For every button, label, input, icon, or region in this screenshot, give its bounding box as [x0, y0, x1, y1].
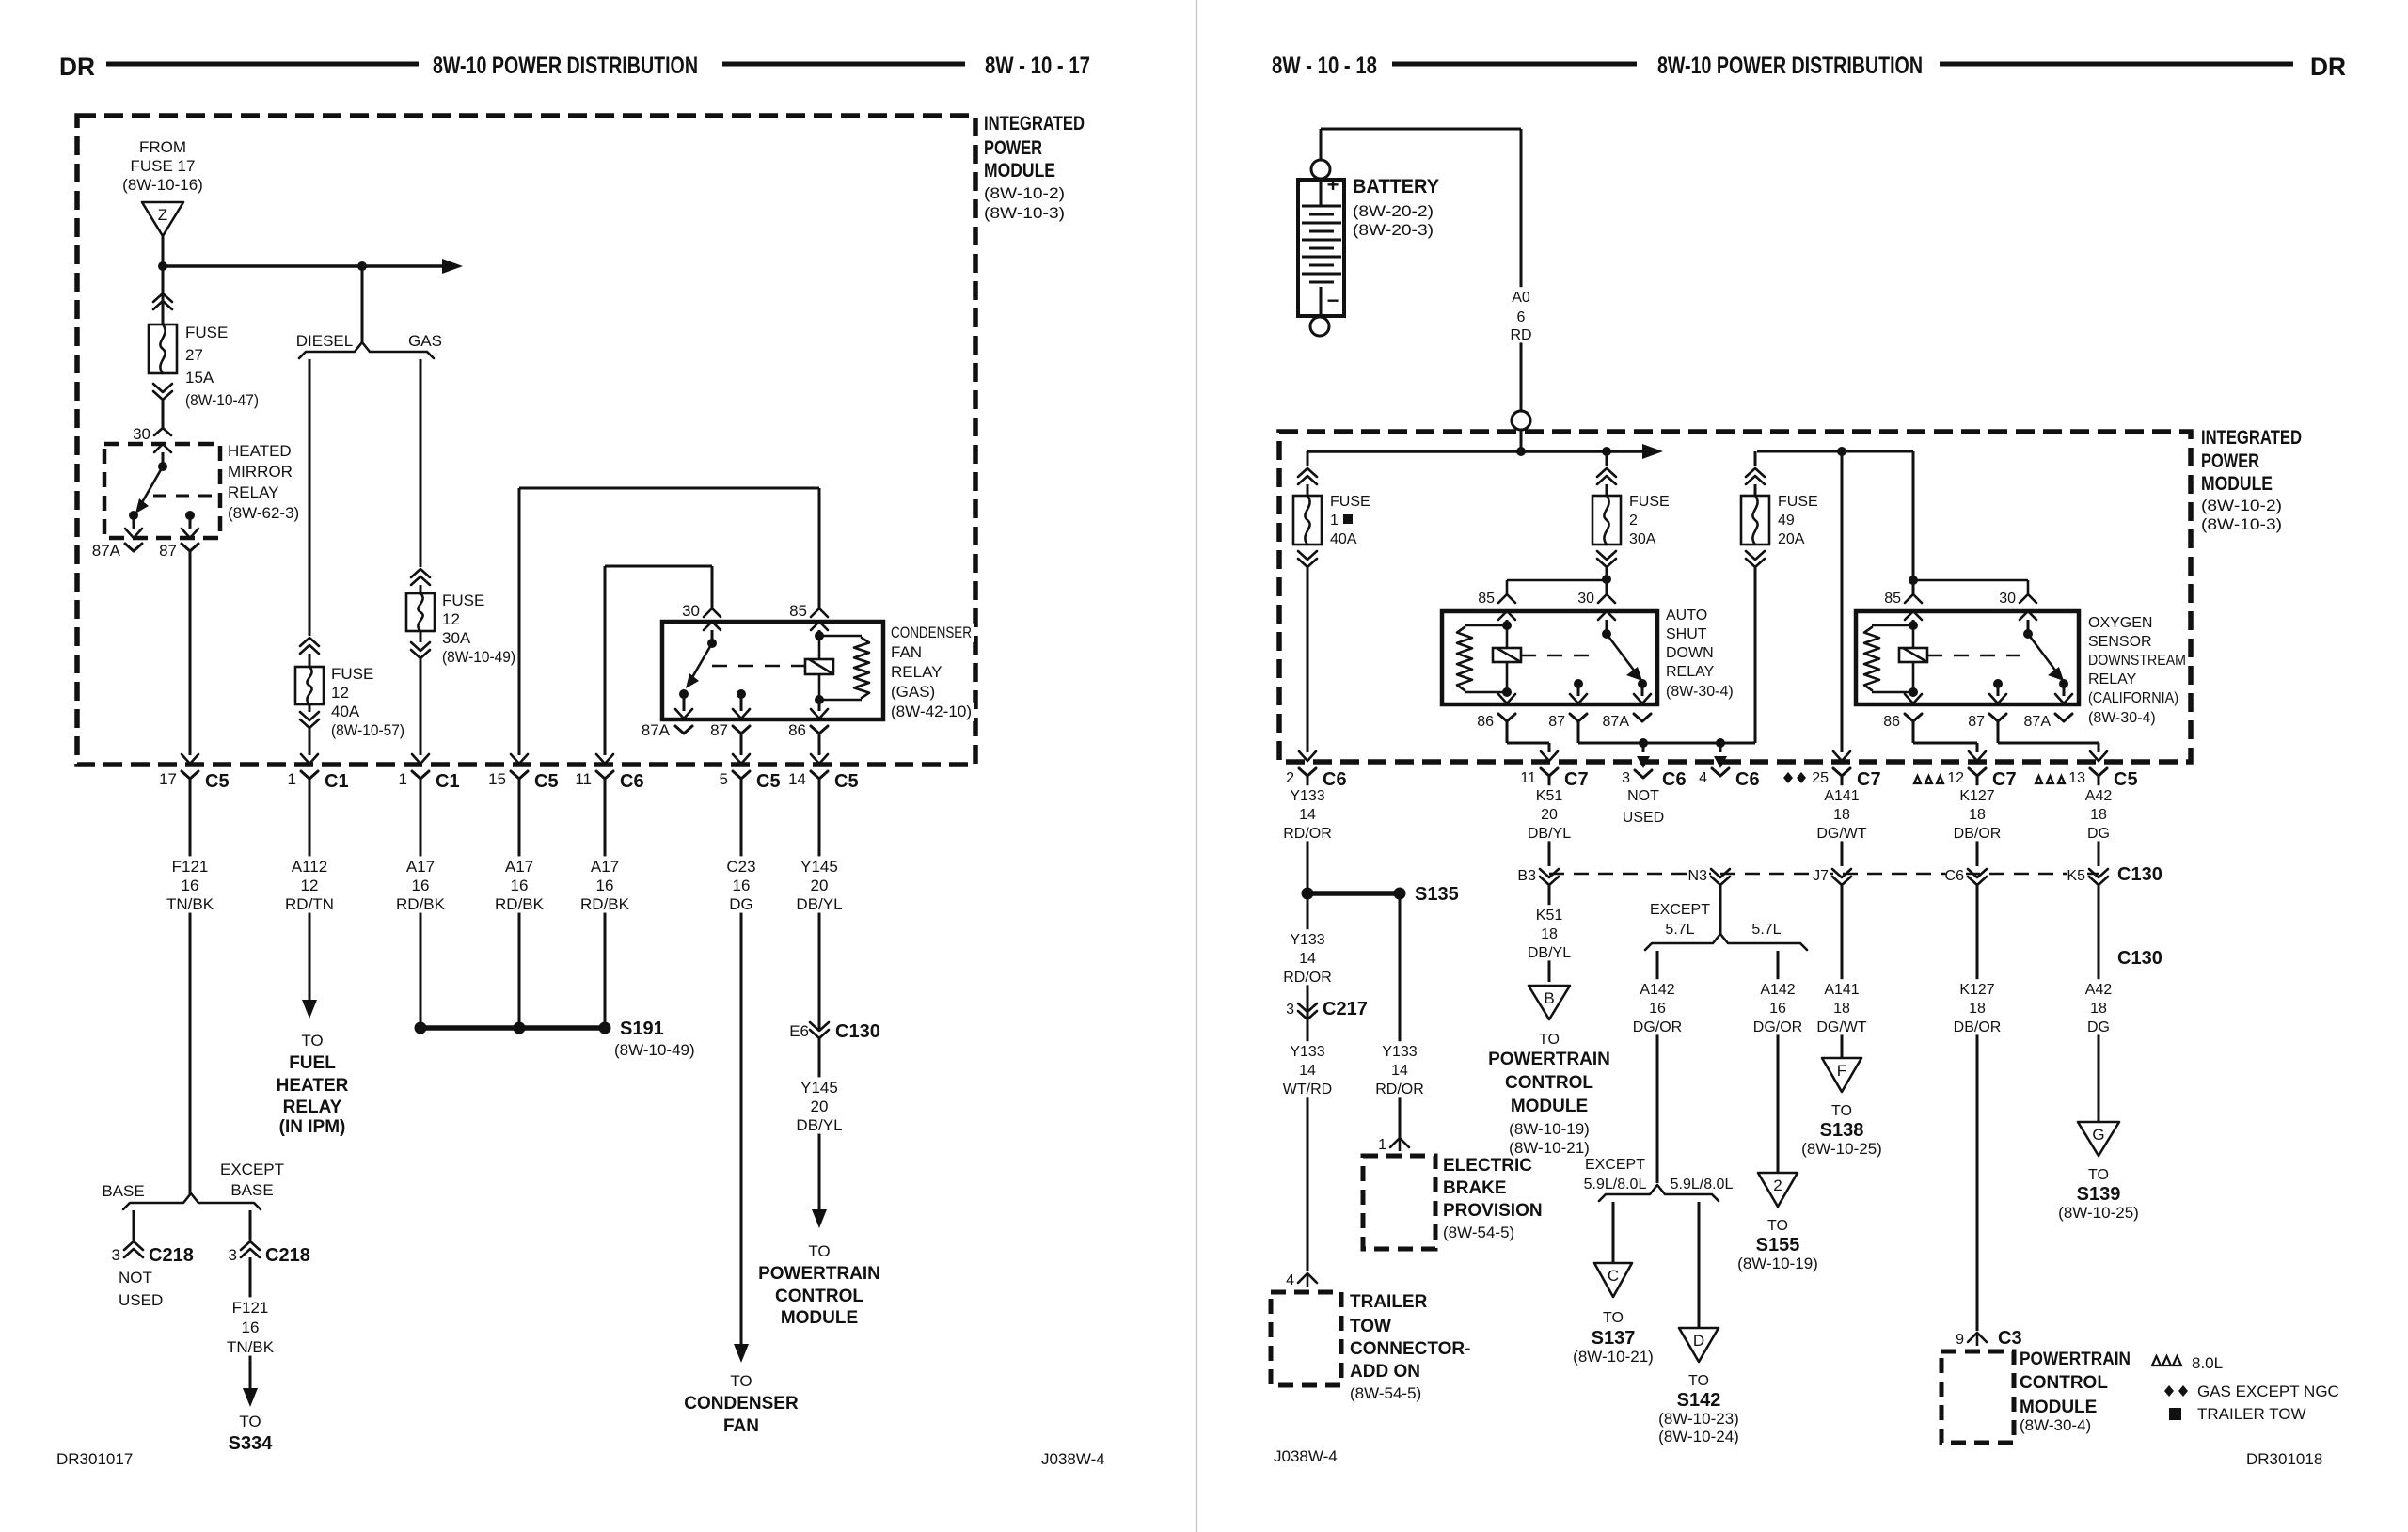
svg-text:CONTROL: CONTROL: [1505, 1073, 1593, 1093]
svg-text:C5: C5: [756, 771, 781, 792]
svg-text:16: 16: [1649, 1001, 1666, 1017]
arrow to fuel heater relay: [302, 1000, 317, 1019]
svg-text:OXYGEN: OXYGEN: [2088, 615, 2152, 631]
wire label Y133 14 RD/OR (mid): [1285, 929, 1331, 985]
svg-text:1: 1: [1330, 513, 1339, 529]
inline connector below fuse1: [1298, 559, 1317, 567]
svg-text:4: 4: [1699, 770, 1707, 786]
inline connector below fuse49: [1746, 559, 1765, 567]
wire battery positive to IPM: [1320, 129, 1323, 160]
svg-text:POWERTRAIN: POWERTRAIN: [758, 1264, 880, 1284]
O2 coil node top: [1909, 621, 1918, 630]
svg-text:17: 17: [159, 770, 177, 788]
triangle ref G: [2078, 1122, 2119, 1156]
svg-text:40A: 40A: [331, 703, 360, 720]
svg-text:86: 86: [788, 721, 806, 739]
svg-text:(8W-30-4): (8W-30-4): [1666, 684, 1734, 700]
heated mirror relay box: [104, 444, 220, 538]
connector C1 pin 1 diesel: [301, 771, 318, 779]
svg-text:FUSE: FUSE: [185, 324, 228, 341]
svg-text:TO: TO: [239, 1413, 261, 1430]
svg-text:A17: A17: [591, 858, 619, 876]
integrated power module box (page1): [77, 116, 975, 765]
wire O2 87 to C5-13: [1997, 721, 2000, 743]
svg-text:HEATED: HEATED: [228, 442, 292, 460]
heated mirror relay contact 87A node: [129, 511, 138, 520]
wire C5-14 to C130: [818, 779, 821, 1029]
svg-text:Y133: Y133: [1290, 1044, 1324, 1060]
svg-text:A0: A0: [1512, 290, 1530, 306]
svg-text:3: 3: [112, 1246, 120, 1264]
svg-text:18: 18: [1969, 1001, 1986, 1017]
svg-text:11: 11: [575, 770, 592, 788]
svg-text:A142: A142: [1640, 982, 1674, 998]
condenser relay coil branch: [819, 635, 862, 638]
wire Z triangle to bus: [162, 236, 165, 266]
inline connector below fuse 12 diesel: [309, 704, 311, 712]
svg-text:TO: TO: [1767, 1218, 1788, 1234]
heated mirror relay switch arm: [141, 466, 163, 504]
wire condenser relay 85 to C5-15: [518, 488, 521, 755]
svg-text:C5: C5: [834, 771, 859, 792]
connector C217 pin 3: [1298, 1011, 1317, 1019]
svg-text:Z: Z: [158, 206, 167, 224]
svg-text:CONTROL: CONTROL: [2020, 1373, 2108, 1393]
svg-text:RELAY: RELAY: [891, 663, 943, 681]
connector J7: [1832, 877, 1851, 885]
svg-text:(8W-10-25): (8W-10-25): [2058, 1204, 2139, 1222]
svg-text:SHUT: SHUT: [1666, 626, 1707, 642]
connector C7 pin 12: [1969, 768, 1986, 776]
svg-text:RD/BK: RD/BK: [580, 895, 630, 913]
svg-text:TO: TO: [730, 1372, 752, 1390]
svg-text:GAS: GAS: [408, 332, 442, 350]
connector C218 base: [124, 1241, 143, 1250]
svg-text:TRAILER TOW: TRAILER TOW: [2197, 1405, 2306, 1423]
svg-text:DB/YL: DB/YL: [1528, 826, 1571, 842]
svg-text:TN/BK: TN/BK: [227, 1338, 275, 1356]
svg-text:16: 16: [733, 877, 751, 894]
svg-text:14: 14: [1299, 951, 1316, 967]
svg-text:NOT: NOT: [119, 1269, 152, 1287]
connector B3: [1540, 877, 1559, 885]
svg-text:C218: C218: [265, 1245, 310, 1266]
condenser relay resistor: [854, 638, 869, 698]
connector C1 pin 1 gas: [412, 771, 429, 779]
page2 header rule right: [1940, 62, 2293, 67]
bus page2 left segment: [1307, 450, 1642, 453]
svg-text:C130: C130: [835, 1021, 880, 1042]
wire tap to C6-4: [1719, 743, 1722, 752]
svg-text:16: 16: [511, 877, 529, 894]
svg-text:18: 18: [1833, 807, 1850, 823]
wire base branch: [133, 1210, 135, 1240]
svg-text:(8W-10-23): (8W-10-23): [1658, 1410, 1739, 1428]
svg-text:RELAY: RELAY: [2088, 671, 2137, 687]
arrow bus page2: [1642, 444, 1663, 459]
ASD pin 86: [1506, 692, 1509, 696]
svg-text:BATTERY: BATTERY: [1353, 176, 1439, 197]
svg-text:(8W-30-4): (8W-30-4): [2088, 710, 2156, 726]
5.7 split bracket: [1645, 934, 1807, 950]
svg-text:8W-10 POWER DISTRIBUTION: 8W-10 POWER DISTRIBUTION: [433, 53, 698, 79]
svg-text:A42: A42: [2085, 788, 2113, 804]
wire C5-13 to K5/C130: [2098, 776, 2100, 866]
svg-text:85: 85: [789, 602, 807, 620]
svg-text:TO: TO: [1603, 1310, 1624, 1326]
ASD switch node: [1602, 629, 1611, 639]
svg-text:(8W-10-2): (8W-10-2): [984, 184, 1065, 202]
svg-text:TO: TO: [2088, 1167, 2109, 1183]
svg-text:EXCEPT: EXCEPT: [1650, 902, 1710, 918]
svg-text:J7: J7: [1813, 868, 1829, 884]
svg-text:C: C: [1608, 1267, 1619, 1285]
svg-text:DG: DG: [2087, 826, 2110, 842]
wire battery into bus: [1520, 430, 1523, 451]
wire to fuse 49: [1754, 451, 1757, 466]
O2 coil: [1899, 648, 1927, 662]
svg-text:DG/OR: DG/OR: [1753, 1019, 1802, 1035]
svg-text:ADD ON: ADD ON: [1350, 1362, 1420, 1382]
svg-text:A141: A141: [1824, 788, 1859, 804]
svg-text:EXCEPT: EXCEPT: [1585, 1157, 1645, 1173]
base split bracket: [123, 1193, 261, 1209]
condenser fan relay label: [889, 624, 974, 642]
fuse F49 20A: [1741, 496, 1769, 545]
svg-text:DG/WT: DG/WT: [1816, 826, 1867, 842]
svg-text:CONTROL: CONTROL: [775, 1287, 863, 1306]
condenser relay pin 86: [818, 700, 821, 711]
svg-text:(IN IPM): (IN IPM): [279, 1117, 346, 1137]
svg-text:14: 14: [1299, 807, 1316, 823]
svg-text:(8W-10-57): (8W-10-57): [331, 721, 404, 739]
svg-text:2: 2: [1629, 513, 1638, 529]
svg-text:TN/BK: TN/BK: [166, 895, 214, 913]
O2 pin 86: [1912, 692, 1915, 696]
svg-text:C5: C5: [205, 771, 230, 792]
wire label A42 18 DG (lower): [2084, 979, 2114, 1034]
svg-text:DB/OR: DB/OR: [1954, 1019, 2002, 1035]
splice S135: [1307, 891, 1400, 896]
svg-text:RELAY: RELAY: [283, 1098, 342, 1117]
node bus junction diesel/gas tap: [357, 261, 367, 271]
wire gas branch: [420, 359, 422, 567]
svg-text:DR: DR: [2310, 53, 2346, 81]
connector C5 pin 13: [2090, 768, 2107, 776]
triangle ref C: [1594, 1263, 1632, 1297]
svg-text:INTEGRATED: INTEGRATED: [2201, 427, 2302, 449]
svg-text:S334: S334: [229, 1433, 274, 1454]
triangle ref Z (from fuse 17): [142, 202, 183, 236]
svg-text:87: 87: [1968, 714, 1985, 730]
svg-text:(8W-10-21): (8W-10-21): [1573, 1348, 1654, 1366]
wire S135 right branch down: [1399, 893, 1402, 1140]
svg-text:C130: C130: [2117, 948, 2162, 969]
wire label A0 6 RD: [1511, 287, 1531, 342]
svg-text:S135: S135: [1415, 884, 1459, 905]
wire C6-2 to S135: [1307, 776, 1309, 893]
pin 30 chevron heated mirror relay: [154, 428, 171, 435]
svg-text:USED: USED: [119, 1291, 163, 1309]
wire label A142 16 DG/OR (right): [1755, 979, 1801, 1034]
svg-text:MODULE: MODULE: [984, 160, 1055, 182]
svg-text:A112: A112: [292, 858, 327, 876]
condenser relay internal pin30 chevron: [704, 622, 721, 630]
wire label A17 16 RD/BK (3): [580, 856, 629, 912]
page1 header rule right: [722, 62, 965, 67]
fuse F27: [149, 324, 177, 373]
fuse F12 gas 30A: [406, 593, 435, 631]
wire C7-11 to B3: [1548, 776, 1551, 866]
svg-text:16: 16: [1769, 1001, 1786, 1017]
O2 coil wire: [1912, 625, 1915, 692]
inline connector below fuse2: [1597, 559, 1616, 567]
svg-text:2: 2: [1773, 1177, 1782, 1194]
arrow feed bus page1: [442, 259, 463, 274]
svg-text:PROVISION: PROVISION: [1443, 1201, 1543, 1221]
svg-text:(8W-20-2): (8W-20-2): [1353, 202, 1434, 220]
svg-text:12: 12: [301, 877, 319, 894]
svg-text:15: 15: [488, 770, 506, 788]
svg-text:DG: DG: [2087, 1019, 2110, 1035]
wire fuse49 down to 87 bus: [1754, 567, 1757, 743]
svg-text:K127: K127: [1959, 982, 1994, 998]
wire to triangle C: [1612, 1202, 1615, 1263]
wire label Y133 14 RD/OR (top): [1285, 785, 1331, 841]
trailer tow connector box: [1271, 1292, 1341, 1385]
wire except 5.7 branch: [1656, 951, 1659, 1183]
svg-text:(8W-10-19): (8W-10-19): [1737, 1255, 1818, 1272]
wire label A17 16 RD/BK (1): [396, 856, 445, 912]
svg-text:C218: C218: [149, 1245, 194, 1266]
wire C5-15 to S191: [518, 779, 521, 1028]
connector C7 pin 25: [1833, 768, 1850, 776]
svg-text:F: F: [1837, 1062, 1846, 1080]
svg-text:30A: 30A: [1629, 531, 1656, 547]
wire diesel branch: [309, 359, 311, 636]
svg-text:18: 18: [2090, 1001, 2107, 1017]
node bus junction left: [158, 261, 167, 271]
svg-text:CONDENSER: CONDENSER: [891, 624, 972, 641]
fuse F12 diesel 40A: [295, 667, 324, 704]
svg-text:C6: C6: [620, 771, 644, 792]
svg-text:S139: S139: [2077, 1184, 2121, 1205]
inline connector above fuse 12 diesel: [300, 638, 319, 646]
svg-text:(8W-54-5): (8W-54-5): [1350, 1384, 1421, 1402]
svg-text:MODULE: MODULE: [2020, 1398, 2097, 1417]
wire to ASD pin85: [1507, 579, 1607, 582]
O2 coil node bottom: [1909, 687, 1918, 697]
svg-text:27: 27: [185, 346, 203, 364]
svg-text:K127: K127: [1959, 788, 1994, 804]
inline connector below fuse 27: [153, 391, 172, 400]
svg-text:87A: 87A: [92, 542, 121, 560]
svg-text:BASE: BASE: [102, 1182, 144, 1200]
wire except-base branch: [249, 1210, 252, 1240]
svg-text:RELAY: RELAY: [228, 483, 279, 501]
svg-text:3: 3: [1622, 770, 1630, 786]
svg-text:(8W-10-3): (8W-10-3): [984, 204, 1065, 222]
svg-text:86: 86: [1477, 714, 1494, 730]
svg-text:D: D: [1693, 1332, 1704, 1350]
svg-text:1: 1: [288, 770, 296, 788]
svg-text:5.9L/8.0L: 5.9L/8.0L: [1671, 1177, 1734, 1192]
svg-text:−: −: [1327, 289, 1339, 312]
condenser relay internal pin85 chevron: [811, 622, 828, 630]
svg-text:12: 12: [442, 610, 460, 628]
arrow to S334: [243, 1388, 258, 1407]
wire horizontal feed bus page1: [163, 264, 442, 268]
svg-text:14: 14: [788, 770, 806, 788]
wire label A42 18 DG (top): [2084, 785, 2114, 841]
label 5.9L/8.0L: [1662, 1176, 1740, 1193]
wire fuse12 gas to C1-1: [420, 658, 422, 755]
wire bus to O2 relay: [1912, 451, 1915, 580]
wire fuse12 diesel to C1-1: [309, 728, 311, 755]
battery feed terminal circle redraw: [1512, 411, 1530, 430]
svg-text:18: 18: [1541, 926, 1558, 942]
svg-text:(8W-54-5): (8W-54-5): [1443, 1224, 1514, 1241]
svg-text:C3: C3: [1998, 1328, 2022, 1349]
svg-text:FUSE: FUSE: [1330, 494, 1370, 510]
svg-text:GAS EXCEPT NGC: GAS EXCEPT NGC: [2197, 1382, 2339, 1400]
diesel/gas split bracket: [299, 342, 434, 358]
battery: [1298, 180, 1344, 316]
svg-text:FAN: FAN: [723, 1416, 759, 1436]
wire label K127 18 DB/OR (lower): [1955, 979, 2001, 1034]
svg-text:CONDENSER: CONDENSER: [684, 1394, 799, 1414]
inline connector above fuse 27: [153, 293, 172, 302]
svg-text:+: +: [1327, 173, 1339, 197]
svg-text:INTEGRATED: INTEGRATED: [984, 113, 1085, 134]
svg-text:TRAILER: TRAILER: [1350, 1292, 1428, 1312]
wire ASD 86 to C7-11: [1506, 721, 1509, 743]
arrow to powertrain control module: [812, 1209, 827, 1228]
connector C6 pin 11: [596, 771, 613, 779]
condenser relay coil: [805, 659, 833, 674]
svg-text:20: 20: [811, 877, 829, 894]
svg-text:RD/OR: RD/OR: [1283, 970, 1332, 986]
wire to fuse 2: [1606, 451, 1608, 466]
svg-text:Y133: Y133: [1290, 932, 1324, 948]
svg-text:(8W-42-10): (8W-42-10): [891, 703, 972, 720]
svg-text:FUSE: FUSE: [1778, 494, 1818, 510]
svg-text:16: 16: [182, 877, 199, 894]
svg-text:DB/YL: DB/YL: [796, 895, 842, 913]
svg-text:C6: C6: [1662, 769, 1687, 790]
O2 resistor: [1864, 627, 1879, 690]
svg-text:POWERTRAIN: POWERTRAIN: [1488, 1050, 1610, 1069]
svg-text:MODULE: MODULE: [2201, 473, 2273, 495]
svg-text:DB/YL: DB/YL: [1528, 945, 1571, 961]
svg-text:S138: S138: [1820, 1120, 1864, 1141]
O2 contact 87: [1993, 679, 2003, 688]
arrow to condenser fan: [734, 1344, 749, 1363]
svg-text:9: 9: [1956, 1332, 1964, 1348]
O2 contact 87A: [2059, 679, 2068, 688]
wire 86 to C5-14: [818, 734, 821, 755]
connector C5 pin 5: [733, 771, 750, 779]
svg-text:1: 1: [399, 770, 407, 788]
svg-text:Y145: Y145: [800, 858, 838, 876]
legend GAS EXCEPT NGC: [2164, 1385, 2174, 1397]
inline connector above fuse 12 gas: [411, 569, 430, 577]
svg-text:16: 16: [412, 877, 430, 894]
wire C218 to S334: [249, 1257, 252, 1388]
heated mirror relay dashed centerline: [153, 495, 220, 498]
svg-text:TO: TO: [808, 1242, 830, 1260]
svg-text:12: 12: [1947, 770, 1964, 786]
svg-text:FUSE: FUSE: [331, 665, 373, 683]
connector C218 except base: [241, 1241, 260, 1250]
svg-text:A142: A142: [1760, 982, 1795, 998]
wire C7-12 to C6/C130: [1976, 776, 1979, 866]
wire O2 pin85 branch: [1912, 580, 1915, 594]
ASD resistor: [1457, 627, 1472, 690]
ASD coil wire: [1506, 625, 1509, 692]
svg-text:4: 4: [1286, 1272, 1294, 1288]
svg-text:8W-10 POWER DISTRIBUTION: 8W-10 POWER DISTRIBUTION: [1657, 53, 1923, 79]
heated mirror relay label: [226, 442, 282, 461]
heated mirror relay contact 87 node: [185, 511, 195, 520]
svg-text:SENSOR: SENSOR: [2088, 634, 2152, 650]
svg-text:13: 13: [2068, 770, 2085, 786]
label EXCEPT 5.7L: [1654, 901, 1707, 919]
wire O2 86 to C7-12: [1912, 721, 1915, 743]
svg-text:TO: TO: [1539, 1032, 1560, 1048]
wire condenser relay 30 to C6-11: [604, 566, 607, 755]
svg-text:HEATER: HEATER: [277, 1076, 349, 1096]
splice bus B3/N3/J7/C6/K5 dashed (C130): [1549, 873, 2099, 876]
svg-text:30: 30: [133, 425, 150, 443]
svg-text:A17: A17: [406, 858, 435, 876]
svg-text:RD/BK: RD/BK: [495, 895, 545, 913]
svg-text:DOWNSTREAM: DOWNSTREAM: [2088, 653, 2186, 669]
inline connector below fuse 12 gas: [420, 631, 422, 642]
svg-text:RELAY: RELAY: [1666, 664, 1715, 680]
page2 header rule left: [1392, 62, 1637, 67]
svg-text:K5: K5: [2067, 868, 2085, 884]
svg-text:MODULE: MODULE: [781, 1308, 858, 1328]
wire C5-5 to condenser fan: [740, 779, 743, 1344]
svg-text:40A: 40A: [1330, 531, 1357, 547]
auto shut down relay box: [1442, 611, 1657, 704]
svg-text:E6: E6: [789, 1022, 809, 1040]
wire B3 down: [1548, 885, 1551, 982]
svg-text:TO: TO: [1688, 1373, 1709, 1389]
label 5.7L: [1748, 921, 1784, 939]
wire label A141 18 DG/WT (top): [1819, 785, 1865, 841]
electric brake provision box: [1363, 1156, 1435, 1249]
svg-text:A42: A42: [2085, 982, 2113, 998]
svg-text:RD/BK: RD/BK: [396, 895, 446, 913]
wire O2 pin30 branch: [1913, 579, 2028, 582]
svg-text:RD/OR: RD/OR: [1375, 1082, 1424, 1098]
connector N3: [1711, 877, 1730, 885]
svg-text:C23: C23: [726, 858, 755, 876]
ASD contact 87: [1574, 679, 1583, 688]
svg-text:DR301017: DR301017: [56, 1450, 133, 1468]
connector C5 pin 14: [811, 771, 828, 779]
svg-text:F121: F121: [172, 858, 209, 876]
ASD internal pin85 chevron: [1498, 611, 1515, 620]
svg-text:C1: C1: [436, 771, 460, 792]
wire label Y145 20 DB/YL lower: [795, 1077, 844, 1133]
svg-text:(8W-10-2): (8W-10-2): [2201, 497, 2282, 514]
svg-text:DR: DR: [59, 53, 95, 81]
svg-text:S137: S137: [1592, 1328, 1636, 1349]
svg-text:(8W-10-49): (8W-10-49): [614, 1041, 695, 1059]
